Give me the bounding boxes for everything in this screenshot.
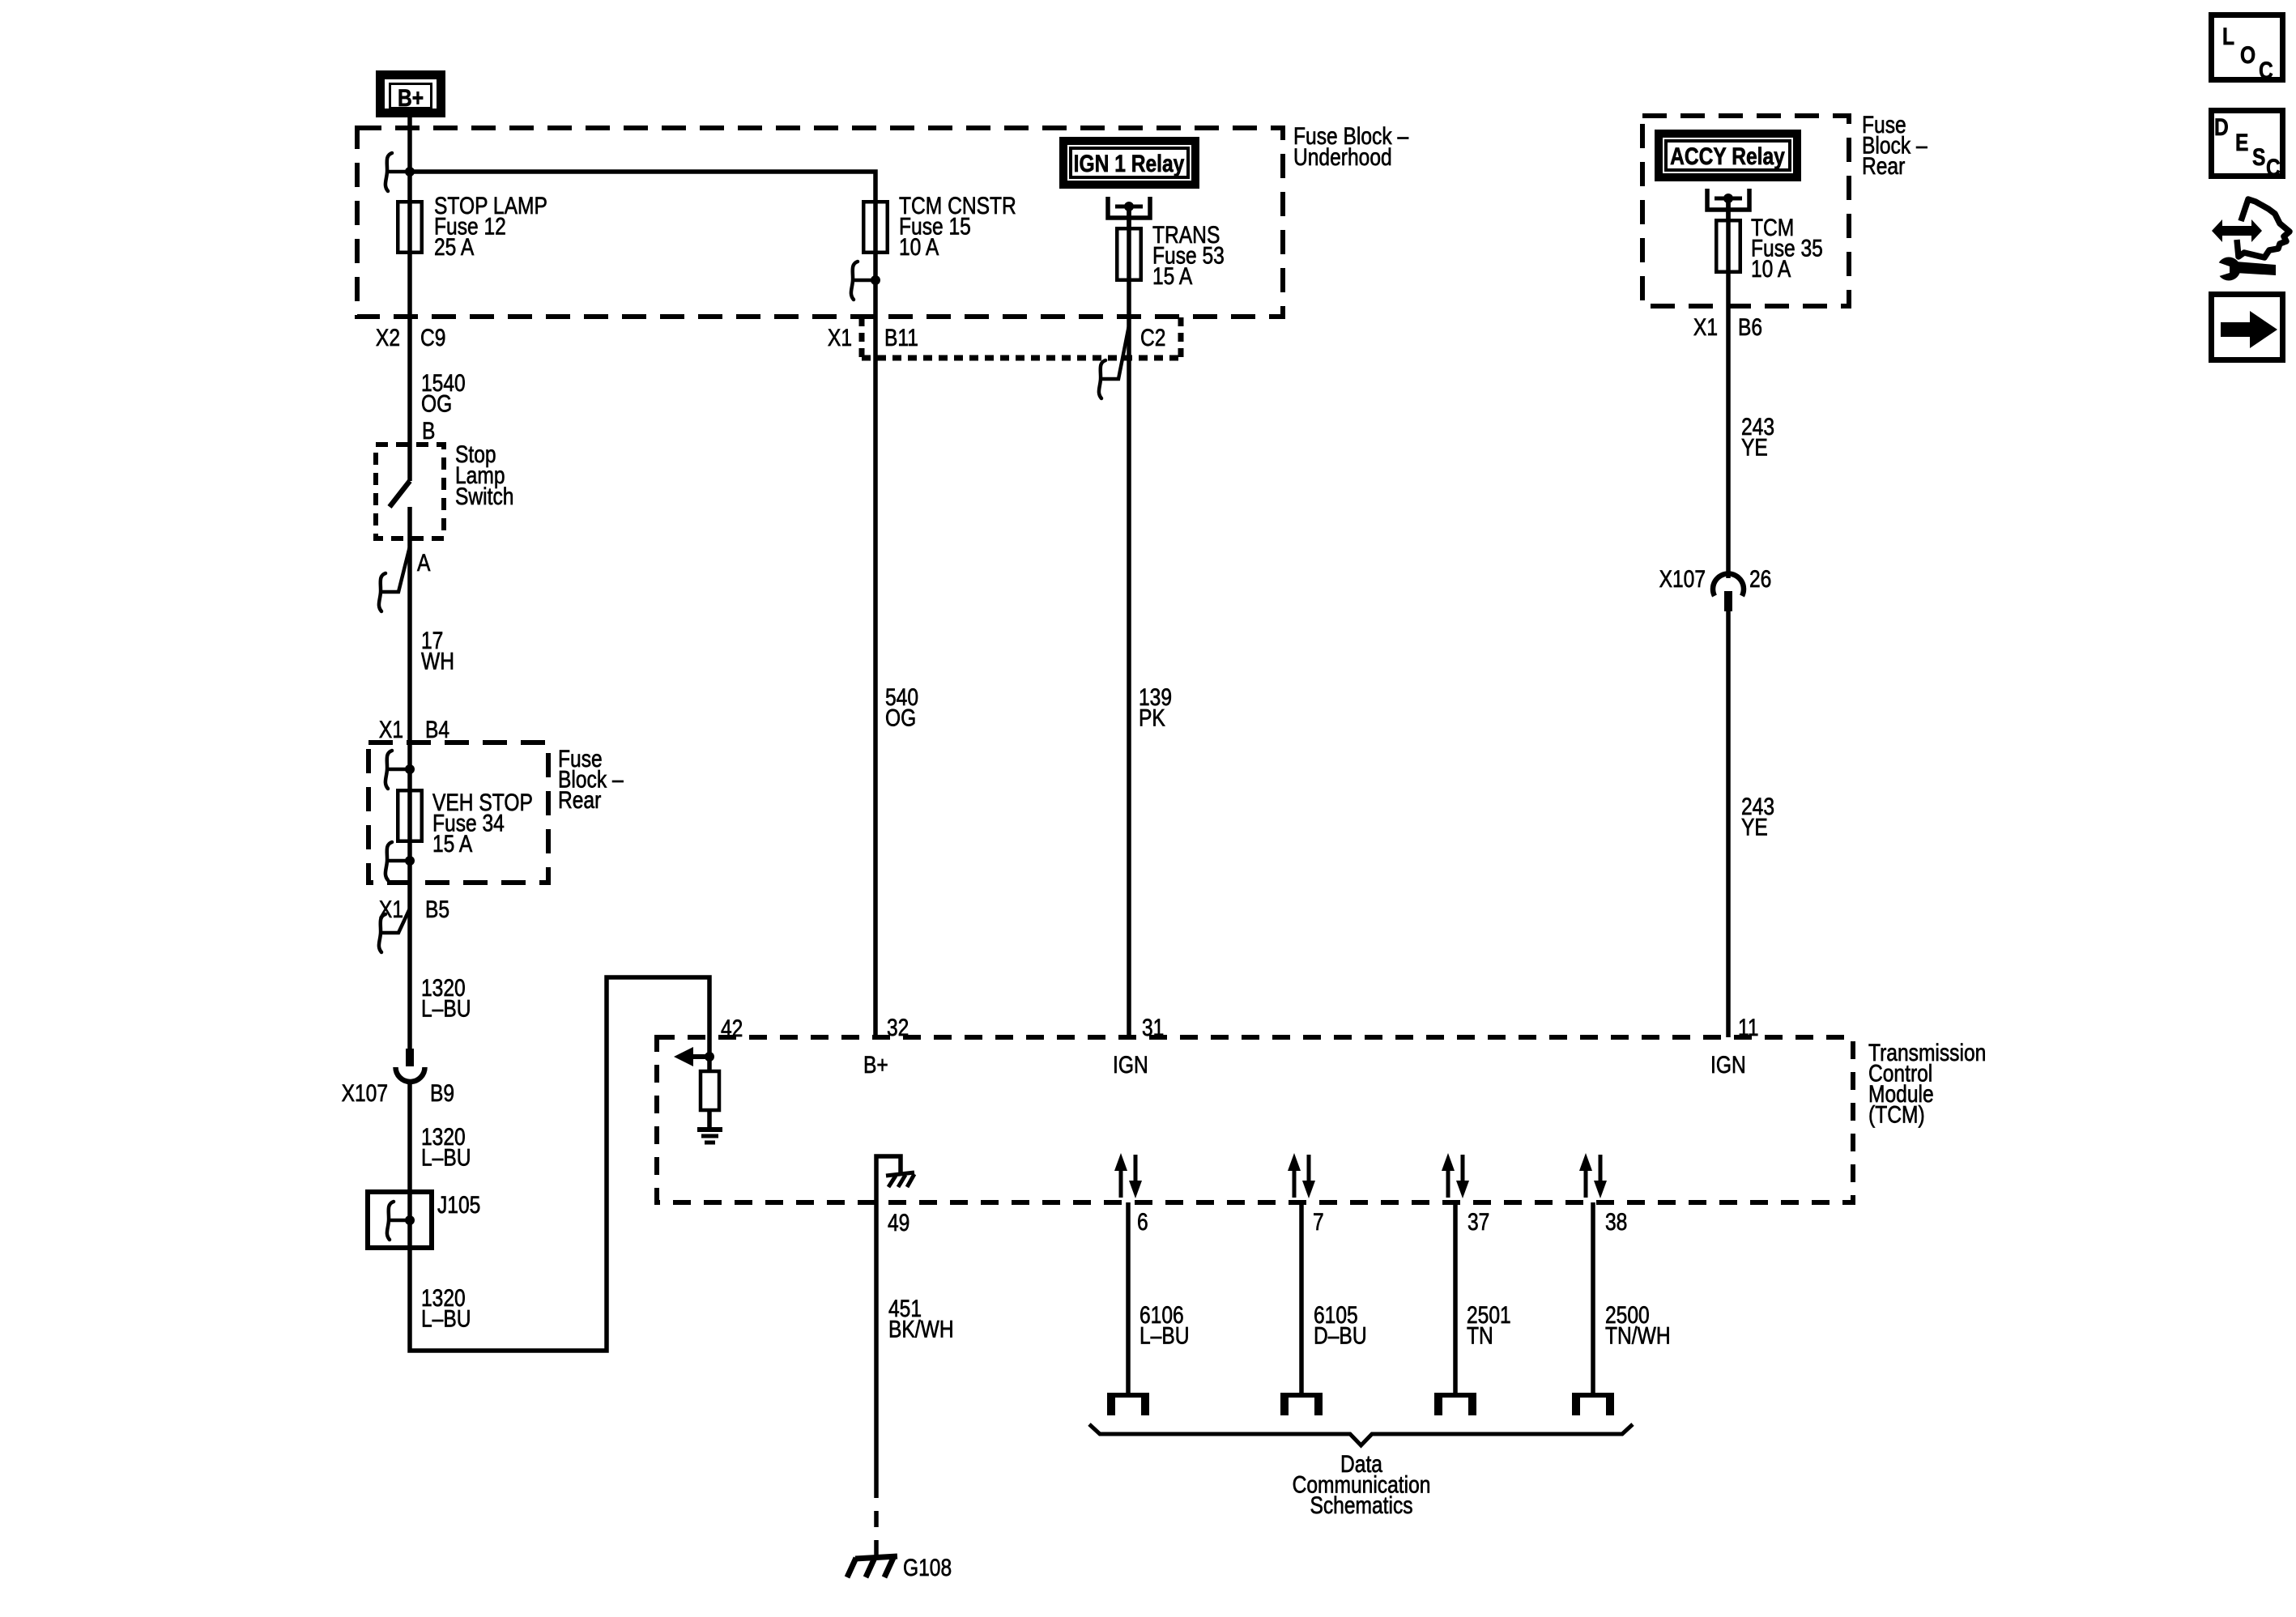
arrow at pin 42: [692, 1054, 709, 1059]
connector labels X107 26: [1659, 565, 1706, 593]
svg-text:PK: PK: [1139, 704, 1165, 731]
fuse F35 TCM: [1716, 220, 1740, 272]
wire through J105: [407, 1192, 412, 1248]
wire 6105 D-BU: [1299, 1202, 1304, 1395]
svg-text:(TCM): (TCM): [1868, 1100, 1925, 1128]
off-page connector pin 7: [1280, 1393, 1323, 1415]
wire relay to fuse 53: [1127, 206, 1131, 227]
connector labels X2 C9: [376, 324, 400, 351]
terminal hook at B+ junction: [386, 153, 410, 191]
relay IGN1 terminal bracket: [1108, 197, 1150, 218]
splice J105 box: [368, 1192, 432, 1248]
terminal hook below B5: [379, 908, 410, 952]
pin 7 data arrows: [1288, 1153, 1315, 1198]
node junction below fuse 34: [405, 856, 415, 866]
pin 11 name IGN: [1710, 1051, 1746, 1079]
terminal hook above fuse 34: [386, 751, 410, 789]
svg-text:S: S: [2252, 143, 2265, 171]
svg-text:C: C: [2266, 154, 2281, 181]
svg-text:A: A: [417, 549, 431, 577]
resistor internal: [701, 1071, 719, 1110]
wrench icon: [2216, 257, 2276, 281]
node splice J105: [405, 1215, 415, 1225]
connector X107 B9 terminal: [406, 1049, 414, 1066]
wire branch to fuse 15: [410, 172, 875, 200]
off-page connector pin 6: [1107, 1393, 1149, 1415]
wire pin42 to resistor: [707, 1057, 712, 1071]
pin 49 label: [888, 1209, 909, 1236]
terminal hook in J105: [387, 1202, 410, 1240]
connector X107 B9 arc: [396, 1067, 425, 1082]
off-page connector pin 37: [1434, 1393, 1476, 1415]
svg-text:X2: X2: [376, 324, 400, 351]
svg-text:X107: X107: [1659, 565, 1706, 593]
svg-text:26: 26: [1749, 565, 1771, 593]
wire label 139 PK: [1139, 683, 1172, 731]
ground earth symbol: [697, 1130, 722, 1143]
svg-text:7: 7: [1313, 1208, 1324, 1236]
svg-text:X1: X1: [379, 716, 403, 743]
svg-text:15 A: 15 A: [1152, 262, 1193, 290]
label Transmission Control Module (TCM): [1868, 1039, 1986, 1128]
svg-text:B11: B11: [884, 324, 918, 351]
svg-text:OG: OG: [421, 389, 452, 417]
wire fuse 15 down to pin 32: [873, 200, 878, 1037]
svg-text:X1: X1: [828, 324, 852, 351]
switch blade: [390, 481, 410, 507]
X1 connector dotted sub-box: [862, 317, 1181, 358]
chassis ground at pin 49: [886, 1172, 914, 1187]
svg-text:IGN 1 Relay: IGN 1 Relay: [1074, 150, 1185, 177]
svg-text:O: O: [2240, 41, 2256, 69]
svg-text:J105: J105: [437, 1191, 480, 1219]
svg-text:WH: WH: [421, 647, 454, 674]
svg-text:B4: B4: [425, 716, 449, 743]
fuse F12 STOP LAMP: [398, 202, 422, 253]
svg-text:G108: G108: [903, 1554, 952, 1581]
pin 38 data arrows: [1579, 1153, 1607, 1198]
node junction below fuse 15: [871, 275, 880, 285]
relay ACCY Relay box: [1659, 134, 1797, 177]
terminal hook below fuse 34: [386, 842, 410, 880]
svg-text:B+: B+: [398, 84, 424, 112]
svg-text:37: 37: [1467, 1208, 1489, 1236]
svg-text:Underhood: Underhood: [1293, 143, 1392, 171]
DESC icon box: [2212, 111, 2283, 181]
wire fuse 53 down to pin 31: [1127, 206, 1131, 1037]
connector labels X1 B6: [1693, 313, 1718, 341]
svg-text:B+: B+: [863, 1051, 888, 1079]
svg-text:B6: B6: [1738, 313, 1762, 341]
wire label 1540 OG: [421, 369, 466, 417]
svg-text:L–BU: L–BU: [421, 1143, 471, 1171]
svg-text:TN/WH: TN/WH: [1605, 1321, 1671, 1349]
pin 31 label: [1142, 1014, 1164, 1041]
svg-text:L: L: [2222, 23, 2234, 50]
svg-text:X107: X107: [342, 1079, 388, 1107]
svg-text:11: 11: [1738, 1014, 1759, 1041]
svg-text:L–BU: L–BU: [421, 1304, 471, 1332]
node pin 42 junction: [705, 1052, 714, 1062]
label Fuse Block - Rear (left): [558, 745, 624, 814]
wire fuse 34 down: [407, 789, 412, 1049]
wire B+ down to fuse 12: [407, 117, 412, 200]
svg-text:C9: C9: [420, 324, 445, 351]
terminal hook at B11 junction: [851, 262, 875, 300]
svg-text:YE: YE: [1741, 813, 1768, 840]
wire 6106 L-BU: [1126, 1202, 1131, 1395]
svg-text:49: 49: [888, 1209, 909, 1236]
wire label 1320 L-BU third: [421, 1284, 471, 1332]
pin 7 label: [1313, 1208, 1324, 1236]
terminal hook below A: [379, 547, 410, 611]
label Fuse Block - Underhood: [1293, 122, 1409, 171]
svg-text:B9: B9: [430, 1079, 454, 1107]
label Fuse Block - Rear (right): [1862, 111, 1928, 180]
ground G108 chassis symbol: [847, 1556, 897, 1577]
connector labels X1 B11: [828, 324, 852, 351]
fuse block rear dashed box (left): [368, 743, 548, 883]
TCM dashed box: [657, 1037, 1853, 1202]
wire label 451 BK/WH: [888, 1295, 954, 1343]
power feed B+ box: [381, 75, 441, 113]
svg-text:15 A: 15 A: [432, 830, 473, 857]
connector labels X107 B9: [342, 1079, 388, 1107]
svg-text:C: C: [2259, 57, 2273, 84]
fuse F34 VEH STOP: [398, 790, 422, 841]
svg-text:L–BU: L–BU: [1139, 1321, 1190, 1349]
node relay IGN1 output: [1124, 202, 1134, 211]
ground G108 label: [903, 1554, 952, 1581]
hand outline icon: [2237, 199, 2290, 257]
wire label 243 YE second: [1741, 793, 1774, 840]
relay IGN 1 Relay box: [1063, 141, 1195, 185]
pin 11 label: [1738, 1014, 1759, 1041]
connector X107 26 arc: [1713, 574, 1744, 596]
svg-text:6: 6: [1137, 1208, 1148, 1236]
wire 2500 TN/WH: [1591, 1202, 1595, 1395]
svg-text:10 A: 10 A: [1751, 255, 1791, 283]
forward arrow icon box: [2212, 295, 2283, 360]
svg-text:BK/WH: BK/WH: [888, 1315, 954, 1343]
svg-text:L–BU: L–BU: [421, 994, 471, 1022]
off-page connector pin 38: [1572, 1393, 1614, 1415]
wire 2501 TN: [1453, 1202, 1458, 1395]
label Data Communication Schematics: [1293, 1450, 1431, 1519]
svg-text:10 A: 10 A: [899, 233, 939, 261]
hand double arrow icon: [2212, 219, 2262, 242]
svg-text:42: 42: [721, 1015, 743, 1042]
svg-text:Schematics: Schematics: [1310, 1491, 1412, 1519]
label Stop Lamp Switch: [455, 440, 513, 510]
svg-text:Rear: Rear: [1862, 152, 1905, 180]
svg-text:D–BU: D–BU: [1314, 1321, 1367, 1349]
label A (switch pin): [417, 549, 431, 577]
pin 32 name B+: [863, 1051, 888, 1079]
connector labels X1 B4: [379, 716, 403, 743]
wire 451 BK/WH: [874, 1202, 879, 1482]
fuse block underhood dashed box: [357, 128, 1283, 317]
svg-text:ACCY Relay: ACCY Relay: [1670, 143, 1785, 170]
connector labels X1 B5: [379, 896, 403, 923]
pin 42 label: [721, 1015, 743, 1042]
svg-text:YE: YE: [1741, 433, 1768, 461]
svg-text:D: D: [2214, 113, 2229, 141]
pin 37 data arrows: [1442, 1153, 1469, 1198]
wire below X107 B9: [407, 1082, 412, 1192]
wire resistor to ground: [707, 1110, 712, 1127]
connector X107 26 terminal: [1724, 591, 1732, 611]
svg-text:25 A: 25 A: [434, 233, 475, 261]
svg-text:X1: X1: [1693, 313, 1718, 341]
wire switch lower contact down: [407, 507, 412, 789]
wire relay to fuse 35: [1726, 198, 1731, 219]
fuse F53 TRANS: [1117, 228, 1141, 280]
pin 38 label: [1605, 1208, 1627, 1236]
svg-text:31: 31: [1142, 1014, 1164, 1041]
svg-text:Switch: Switch: [455, 483, 513, 510]
brace data communication: [1089, 1424, 1633, 1445]
node junction at B+ branch: [405, 167, 415, 177]
wire label 1320 L-BU second: [421, 1123, 471, 1171]
svg-text:B5: B5: [425, 896, 449, 923]
node junction above fuse 34: [405, 764, 415, 774]
svg-text:B: B: [422, 417, 435, 445]
wire X107 to pin 11: [1726, 611, 1731, 1037]
label C2: [1140, 324, 1165, 351]
svg-text:IGN: IGN: [1710, 1051, 1746, 1079]
svg-text:TN: TN: [1467, 1321, 1493, 1349]
LOC icon box: [2212, 15, 2283, 84]
wire label 243 YE first: [1741, 413, 1774, 461]
node relay ACCY output: [1723, 194, 1733, 203]
svg-text:IGN: IGN: [1113, 1051, 1148, 1079]
wire label 17 WH: [421, 627, 454, 674]
relay ACCY terminal bracket: [1707, 189, 1749, 210]
svg-text:C2: C2: [1140, 324, 1165, 351]
pin 6 label: [1137, 1208, 1148, 1236]
wire J105 to TCM pin 42: [410, 977, 709, 1351]
pin 37 label: [1467, 1208, 1489, 1236]
wire label 1320 L-BU first: [421, 974, 471, 1022]
pin 49 internal ground wire: [876, 1156, 901, 1202]
svg-text:E: E: [2235, 129, 2248, 156]
wire label 540 OG: [885, 683, 918, 731]
pin 31 name IGN: [1113, 1051, 1148, 1079]
terminal hook at C2: [1099, 326, 1129, 398]
svg-text:32: 32: [887, 1014, 909, 1041]
wire fuse 12 to switch: [407, 200, 412, 481]
pin 6 data arrows: [1114, 1153, 1142, 1198]
svg-text:38: 38: [1605, 1208, 1627, 1236]
wire fuse 35 down to X107: [1726, 198, 1731, 578]
stop lamp switch dashed box: [376, 445, 444, 538]
label B (switch pin): [422, 417, 435, 445]
svg-text:Rear: Rear: [558, 786, 601, 814]
fuse block rear dashed box (right): [1642, 116, 1849, 306]
fuse F15 TCM CNSTR: [863, 202, 888, 253]
svg-text:OG: OG: [885, 704, 916, 731]
pin 32 label: [887, 1014, 909, 1041]
